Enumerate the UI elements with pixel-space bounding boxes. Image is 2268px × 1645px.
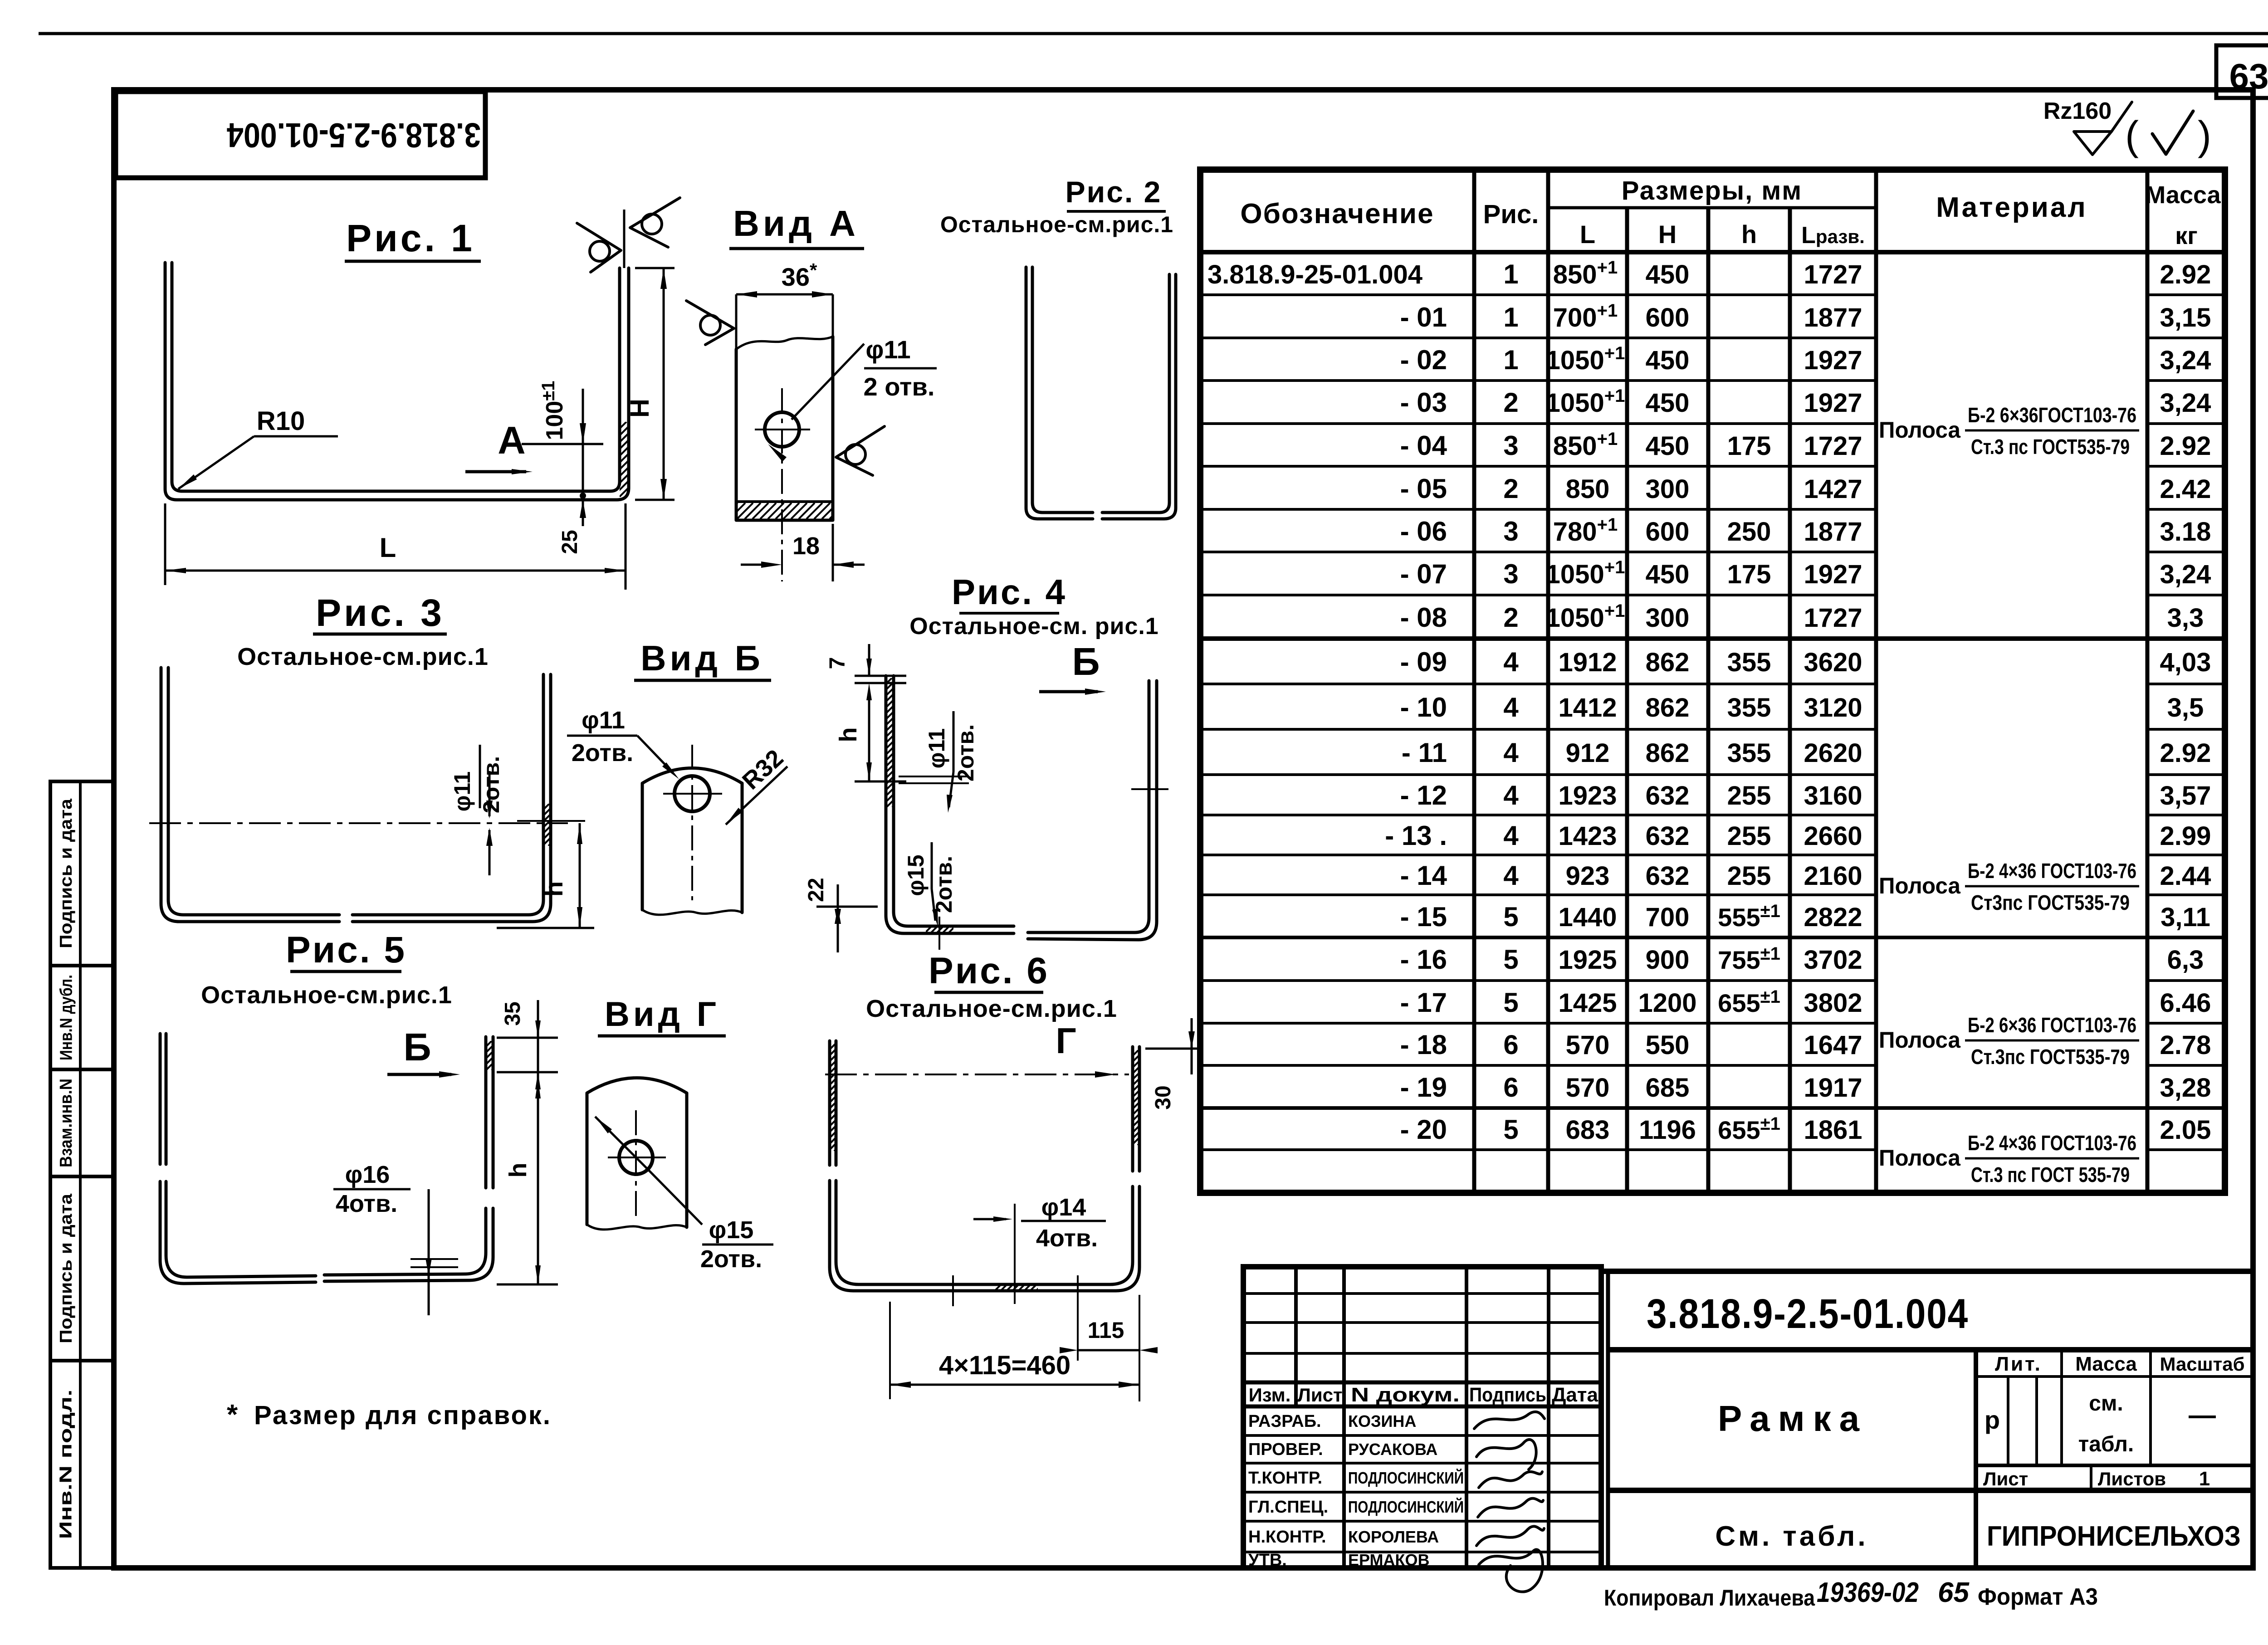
svg-text:1: 1 — [1503, 302, 1518, 332]
svg-text:h: h — [1741, 220, 1757, 249]
svg-text:2.78: 2.78 — [2160, 1030, 2211, 1060]
svg-text:- 14: - 14 — [1400, 860, 1447, 891]
svg-text:1927: 1927 — [1804, 346, 1862, 375]
svg-text:- 12: - 12 — [1400, 780, 1447, 810]
svg-text:H: H — [625, 399, 655, 418]
svg-text:Рис.: Рис. — [1483, 200, 1539, 229]
parts table outer border — [1200, 170, 2225, 1193]
margin section Подпись и дата — [50, 1175, 114, 1178]
svg-text:- 04: - 04 — [1400, 430, 1447, 461]
svg-text:- 18: - 18 — [1400, 1030, 1447, 1060]
svg-text:3.818.9-25-01.004: 3.818.9-25-01.004 — [1207, 260, 1422, 289]
svg-text:Рис. 3: Рис. 3 — [316, 591, 445, 634]
svg-text:2: 2 — [1503, 473, 1518, 504]
svg-text:Lразв.: Lразв. — [1801, 222, 1865, 249]
svg-text:Лист: Лист — [1983, 1468, 2028, 1489]
svg-text:355: 355 — [1727, 648, 1771, 677]
svg-text:Рис. 5: Рис. 5 — [286, 929, 406, 971]
margin section Взам.инв.N — [50, 1068, 114, 1071]
svg-text:5: 5 — [1503, 902, 1518, 932]
svg-text:1647: 1647 — [1804, 1030, 1862, 1060]
svg-text:- 05: - 05 — [1400, 473, 1447, 504]
svg-text:Рис. 2: Рис. 2 — [1066, 175, 1162, 209]
svg-text:1: 1 — [1503, 345, 1518, 375]
title block right part — [1606, 1271, 1610, 1568]
svg-text:Б-2 6×36ГОСТ103-76: Б-2 6×36ГОСТ103-76 — [1968, 403, 2136, 427]
svg-text:- 19: - 19 — [1400, 1072, 1447, 1103]
svg-text:3,24: 3,24 — [2160, 346, 2211, 375]
svg-text:4: 4 — [1503, 737, 1519, 768]
svg-text:1050+1: 1050+1 — [1546, 386, 1625, 418]
svg-text:250: 250 — [1727, 517, 1771, 547]
svg-text:4: 4 — [1503, 780, 1519, 810]
svg-text:ГЛ.СПЕЦ.: ГЛ.СПЕЦ. — [1248, 1498, 1328, 1517]
svg-text:Лит.: Лит. — [1995, 1353, 2042, 1375]
svg-text:Листов: Листов — [2098, 1468, 2166, 1489]
svg-text:Материал: Материал — [1936, 192, 2087, 223]
svg-text:862: 862 — [1646, 693, 1690, 722]
svg-text:632: 632 — [1646, 781, 1690, 810]
title block signature grid — [1243, 1267, 1601, 1568]
svg-text:4отв.: 4отв. — [1036, 1225, 1098, 1252]
svg-text:632: 632 — [1646, 861, 1690, 891]
svg-text:2.44: 2.44 — [2160, 861, 2211, 891]
Рис.4 bottom hole centerline — [938, 917, 940, 950]
svg-text:3,5: 3,5 — [2167, 693, 2204, 722]
svg-text:Рис. 1: Рис. 1 — [346, 217, 475, 259]
svg-text:Остальное-см.рис.1: Остальное-см.рис.1 — [237, 643, 489, 670]
svg-text:850+1: 850+1 — [1553, 258, 1618, 289]
svg-text:1877: 1877 — [1804, 303, 1862, 332]
svg-text:3,28: 3,28 — [2160, 1073, 2211, 1103]
svg-text:Подпись и дата: Подпись и дата — [57, 1193, 76, 1343]
svg-text:h: h — [539, 881, 568, 897]
svg-text:Ст.3пс ГОСТ535-79: Ст.3пс ГОСТ535-79 — [1971, 1045, 2130, 1069]
svg-text:3702: 3702 — [1804, 945, 1862, 975]
svg-text:255: 255 — [1727, 821, 1771, 851]
svg-text:Rz160: Rz160 — [2043, 98, 2112, 124]
svg-text:100±1: 100±1 — [538, 381, 568, 440]
svg-text:1050+1: 1050+1 — [1546, 601, 1625, 633]
svg-text:2.05: 2.05 — [2160, 1115, 2211, 1145]
svg-text:2отв.: 2отв. — [572, 739, 633, 766]
svg-text:850: 850 — [1566, 474, 1610, 504]
Рис.3 hole dim arrows — [489, 771, 491, 816]
svg-text:19369-02: 19369-02 — [1817, 1577, 1919, 1608]
svg-text:6.46: 6.46 — [2160, 988, 2211, 1018]
Вид Г φ15 2отв label — [595, 1117, 648, 1169]
Вид Г bottom wavy break — [587, 1225, 687, 1230]
Рис.3 channel outline — [161, 668, 339, 922]
svg-text:φ14: φ14 — [1041, 1194, 1086, 1221]
Рис.6 channel outline — [828, 1041, 831, 1165]
svg-text:А: А — [498, 419, 525, 462]
Рис.4 hole marks left leg — [899, 776, 969, 777]
svg-text:Вид А: Вид А — [733, 203, 859, 244]
svg-text:Инв.N подл.: Инв.N подл. — [57, 1390, 76, 1539]
svg-text:683: 683 — [1566, 1115, 1610, 1145]
svg-text:Вид Б: Вид Б — [640, 638, 764, 678]
svg-text:Б: Б — [403, 1026, 431, 1069]
Рис.6 hole centerline — [1014, 1204, 1016, 1304]
svg-text:φ11: φ11 — [865, 335, 910, 364]
svg-text:3120: 3120 — [1804, 693, 1862, 722]
svg-text:923: 923 — [1566, 861, 1610, 891]
svg-text:450: 450 — [1646, 260, 1690, 289]
Рис.5 channel outline — [159, 1034, 162, 1164]
svg-text:- 13 .: - 13 . — [1385, 820, 1447, 851]
svg-text:3,57: 3,57 — [2160, 781, 2211, 810]
svg-text:- 09: - 09 — [1400, 647, 1447, 677]
svg-text:3.818.9-2.5-01.004: 3.818.9-2.5-01.004 — [227, 116, 481, 154]
svg-text:1050+1: 1050+1 — [1546, 343, 1625, 375]
Вид А hole leader φ11 2 отв. — [792, 344, 864, 420]
Рис.1 profile outline — [165, 263, 629, 500]
svg-text:850+1: 850+1 — [1553, 429, 1618, 461]
svg-text:Н.КОНТР.: Н.КОНТР. — [1248, 1528, 1326, 1547]
Рис.2 channel outline — [1026, 267, 1093, 519]
svg-text:450: 450 — [1646, 388, 1690, 418]
svg-text:R10: R10 — [257, 406, 305, 436]
table header lines — [1548, 206, 1876, 210]
svg-text:Масса: Масса — [2075, 1353, 2137, 1375]
svg-text:2.92: 2.92 — [2160, 431, 2211, 461]
svg-text:Лист: Лист — [1297, 1384, 1342, 1406]
svg-text:30: 30 — [1151, 1085, 1175, 1109]
svg-text:550: 550 — [1646, 1030, 1690, 1060]
svg-text:Размер для справок.: Размер для справок. — [254, 1401, 552, 1430]
svg-text:Рамка: Рамка — [1718, 1398, 1867, 1439]
Вид Б hole φ11 — [675, 776, 710, 811]
svg-text:Ст3пс ГОСТ535-79: Ст3пс ГОСТ535-79 — [1971, 891, 2130, 914]
svg-text:2.99: 2.99 — [2160, 821, 2211, 851]
Рис.4 channel outline — [886, 676, 1014, 933]
svg-text:780+1: 780+1 — [1553, 515, 1618, 547]
svg-text:РУСАКОВА: РУСАКОВА — [1348, 1440, 1437, 1459]
svg-text:115: 115 — [1088, 1318, 1124, 1343]
svg-text:Размеры, мм: Размеры, мм — [1622, 176, 1802, 205]
svg-text:табл.: табл. — [2078, 1432, 2134, 1456]
svg-text:2.92: 2.92 — [2160, 738, 2211, 768]
svg-text:6,3: 6,3 — [2167, 945, 2204, 975]
svg-text:(: ( — [2125, 113, 2139, 159]
svg-text:КОРОЛЕВА: КОРОЛЕВА — [1348, 1528, 1439, 1546]
svg-text:300: 300 — [1646, 474, 1690, 504]
Рис.1 roughness symbols — [577, 223, 621, 272]
svg-text:- 01: - 01 — [1400, 302, 1447, 332]
svg-text:255: 255 — [1727, 781, 1771, 810]
svg-text:2620: 2620 — [1804, 738, 1862, 768]
svg-text:632: 632 — [1646, 821, 1690, 851]
Вид А bottom flange hatch band — [736, 500, 833, 503]
svg-text:570: 570 — [1566, 1030, 1610, 1060]
svg-text:3.18: 3.18 — [2160, 517, 2211, 547]
svg-text:h: h — [504, 1163, 532, 1178]
svg-text:3: 3 — [1503, 430, 1518, 461]
svg-text:- 02: - 02 — [1400, 345, 1447, 375]
svg-text:Остальное-см. рис.1: Остальное-см. рис.1 — [909, 613, 1158, 639]
svg-text:1050+1: 1050+1 — [1546, 557, 1625, 589]
svg-text:Обозначение: Обозначение — [1240, 198, 1434, 229]
svg-text:φ11: φ11 — [924, 728, 949, 769]
svg-text:φ15: φ15 — [903, 854, 929, 896]
svg-text:18: 18 — [792, 532, 820, 560]
svg-text:Вид Г: Вид Г — [605, 995, 720, 1034]
svg-text:3,11: 3,11 — [2160, 903, 2210, 932]
svg-text:3: 3 — [1503, 559, 1518, 589]
svg-text:65: 65 — [1938, 1577, 1970, 1608]
svg-text:h: h — [835, 727, 862, 742]
Рис.4 right leg centerline tick — [1131, 788, 1168, 790]
svg-text:7: 7 — [826, 657, 850, 669]
svg-text:555±1: 555±1 — [1718, 901, 1780, 932]
Вид Б bottom wavy break — [642, 910, 742, 915]
svg-text:685: 685 — [1646, 1073, 1690, 1103]
svg-text:2отв.: 2отв. — [953, 724, 978, 781]
svg-text:1923: 1923 — [1558, 781, 1617, 810]
svg-text:1727: 1727 — [1804, 431, 1862, 461]
svg-text:2отв.: 2отв. — [931, 856, 957, 913]
svg-text:): ) — [2198, 113, 2211, 159]
svg-text:4: 4 — [1503, 860, 1519, 891]
svg-text:4×115=460: 4×115=460 — [939, 1351, 1070, 1380]
svg-text:Копировал Лихачева: Копировал Лихачева — [1604, 1585, 1815, 1611]
svg-text:Полоса: Полоса — [1879, 1145, 1961, 1171]
svg-text:Рис. 6: Рис. 6 — [929, 950, 1049, 991]
svg-text:1927: 1927 — [1804, 560, 1862, 589]
svg-text:Масса,: Масса, — [2145, 181, 2227, 209]
svg-text:1: 1 — [2199, 1468, 2210, 1490]
svg-text:- 17: - 17 — [1400, 987, 1447, 1018]
svg-text:R32: R32 — [737, 744, 788, 795]
svg-text:355: 355 — [1727, 693, 1771, 722]
svg-text:1412: 1412 — [1558, 693, 1617, 722]
svg-text:570: 570 — [1566, 1073, 1610, 1103]
svg-text:600: 600 — [1646, 303, 1690, 332]
svg-text:1727: 1727 — [1804, 603, 1862, 633]
Рис.5 hole leader — [411, 1189, 429, 1190]
svg-text:3,15: 3,15 — [2160, 303, 2211, 332]
svg-text:3,24: 3,24 — [2160, 560, 2211, 589]
svg-text:1917: 1917 — [1804, 1073, 1862, 1103]
svg-text:Формат А3: Формат А3 — [1978, 1584, 2098, 1610]
svg-text:655±1: 655±1 — [1718, 987, 1780, 1017]
svg-text:УТВ.: УТВ. — [1248, 1551, 1287, 1570]
svg-text:ПОДЛОСИНСКИЙ: ПОДЛОСИНСКИЙ — [1348, 1468, 1464, 1487]
left margin stamp column — [50, 781, 114, 1568]
svg-text:Б-2 6×36 ГОСТ103-76: Б-2 6×36 ГОСТ103-76 — [1968, 1013, 2136, 1037]
svg-text:φ11: φ11 — [450, 771, 475, 812]
svg-text:3802: 3802 — [1804, 988, 1862, 1018]
Рис.6 centerline with Г arrow — [825, 1074, 1129, 1075]
svg-text:450: 450 — [1646, 346, 1690, 375]
svg-text:700: 700 — [1646, 903, 1690, 932]
Вид А roughness symbols — [686, 301, 734, 345]
page number box 63 — [2216, 45, 2268, 98]
svg-text:H: H — [1658, 220, 1677, 249]
svg-text:φ11: φ11 — [582, 707, 625, 734]
svg-text:1912: 1912 — [1558, 648, 1617, 677]
svg-text:2: 2 — [1503, 387, 1518, 418]
svg-text:755±1: 755±1 — [1718, 944, 1780, 974]
svg-text:2160: 2160 — [1804, 861, 1862, 891]
svg-text:Остальное-см.рис.1: Остальное-см.рис.1 — [201, 981, 452, 1009]
svg-text:КОЗИНА: КОЗИНА — [1348, 1412, 1416, 1430]
svg-text:36*: 36* — [782, 259, 817, 291]
svg-text:1877: 1877 — [1804, 517, 1862, 547]
svg-text:Г: Г — [1056, 1020, 1076, 1061]
svg-text:ПРОВЕР.: ПРОВЕР. — [1248, 1440, 1323, 1459]
svg-text:см.: см. — [2089, 1391, 2123, 1416]
svg-text:L: L — [1580, 220, 1595, 249]
svg-text:1727: 1727 — [1804, 260, 1862, 289]
svg-text:4: 4 — [1503, 820, 1519, 851]
margin section Инв.N подл. — [50, 1359, 114, 1362]
svg-text:35: 35 — [501, 1001, 525, 1025]
svg-text:900: 900 — [1646, 945, 1690, 975]
svg-text:862: 862 — [1646, 648, 1690, 677]
svg-text:Ст.3 пс ГОСТ 535-79: Ст.3 пс ГОСТ 535-79 — [1971, 1163, 2130, 1186]
svg-text:- 20: - 20 — [1400, 1114, 1447, 1145]
svg-text:- 03: - 03 — [1400, 387, 1447, 418]
svg-text:862: 862 — [1646, 738, 1690, 768]
svg-text:Инв.N дубл.: Инв.N дубл. — [57, 975, 76, 1060]
svg-text:1861: 1861 — [1804, 1115, 1862, 1145]
svg-text:1425: 1425 — [1558, 988, 1617, 1018]
svg-text:1427: 1427 — [1804, 474, 1862, 504]
Вид Г plate outline — [587, 1078, 687, 1228]
svg-text:450: 450 — [1646, 431, 1690, 461]
svg-text:Подпись: Подпись — [1469, 1384, 1546, 1406]
svg-text:6: 6 — [1503, 1072, 1518, 1103]
svg-text:4,03: 4,03 — [2160, 648, 2211, 677]
svg-text:4: 4 — [1503, 647, 1519, 677]
svg-text:22: 22 — [804, 878, 828, 902]
svg-text:450: 450 — [1646, 560, 1690, 589]
svg-text:ГИПРОНИСЕЛЬХОЗ: ГИПРОНИСЕЛЬХОЗ — [1987, 1521, 2241, 1552]
svg-text:Б-2 4×36 ГОСТ103-76: Б-2 4×36 ГОСТ103-76 — [1968, 859, 2136, 883]
svg-text:1925: 1925 — [1558, 945, 1617, 975]
svg-text:Масштаб: Масштаб — [2160, 1353, 2244, 1375]
table column lines — [1472, 170, 1476, 1193]
svg-text:Ст.3 пс ГОСТ535-79: Ст.3 пс ГОСТ535-79 — [1971, 435, 2130, 459]
svg-text:Т.КОНТР.: Т.КОНТР. — [1248, 1469, 1322, 1488]
svg-text:175: 175 — [1727, 560, 1771, 589]
svg-text:175: 175 — [1727, 431, 1771, 461]
svg-text:- 10: - 10 — [1400, 692, 1447, 722]
svg-text:Б-2 4×36 ГОСТ103-76: Б-2 4×36 ГОСТ103-76 — [1968, 1131, 2136, 1155]
svg-text:1200: 1200 — [1638, 988, 1696, 1018]
svg-text:2822: 2822 — [1804, 903, 1862, 932]
svg-text:5: 5 — [1503, 987, 1518, 1018]
svg-text:кг: кг — [2175, 222, 2198, 249]
svg-text:2отв.: 2отв. — [700, 1245, 762, 1273]
svg-text:600: 600 — [1646, 517, 1690, 547]
svg-text:р: р — [1984, 1406, 2000, 1434]
svg-text:РАЗРАБ.: РАЗРАБ. — [1248, 1412, 1321, 1431]
svg-text:N докум.: N докум. — [1351, 1384, 1460, 1406]
svg-text:3.818.9-2.5-01.004: 3.818.9-2.5-01.004 — [1647, 1291, 1969, 1337]
svg-text:655±1: 655±1 — [1718, 1114, 1780, 1144]
svg-text:6: 6 — [1503, 1030, 1518, 1060]
margin section Инв.N дубл. — [50, 964, 114, 967]
svg-text:ЕРМАКОВ: ЕРМАКОВ — [1348, 1551, 1430, 1569]
svg-text:—: — — [2189, 1400, 2216, 1430]
svg-text:Остальное-см.рис.1: Остальное-см.рис.1 — [940, 212, 1173, 237]
svg-text:255: 255 — [1727, 861, 1771, 891]
signatures squiggles — [1474, 1412, 1545, 1429]
Вид Б plate outline — [642, 768, 742, 913]
top-left inverted stamp box — [116, 92, 485, 178]
svg-text:См. табл.: См. табл. — [1715, 1521, 1868, 1552]
Вид А hole φ11 — [765, 412, 799, 447]
lit/massa/masshtab grid — [1976, 1375, 2253, 1378]
svg-text:300: 300 — [1646, 603, 1690, 633]
svg-text:Полоса: Полоса — [1879, 417, 1961, 443]
svg-text:355: 355 — [1727, 738, 1771, 768]
Вид Г hole φ15 — [619, 1141, 653, 1174]
svg-text:- 11: - 11 — [1402, 737, 1447, 768]
svg-text:1440: 1440 — [1558, 903, 1617, 932]
Рис.6 pitch ticks — [952, 1275, 954, 1306]
svg-text:4: 4 — [1503, 692, 1519, 722]
svg-text:Дата: Дата — [1552, 1384, 1598, 1406]
svg-text:4отв.: 4отв. — [336, 1190, 397, 1217]
svg-text:- 15: - 15 — [1400, 902, 1447, 932]
Рис.3 centerline — [149, 822, 568, 824]
svg-text:3620: 3620 — [1804, 648, 1862, 677]
svg-text:2 отв.: 2 отв. — [864, 372, 935, 401]
svg-text:- 16: - 16 — [1400, 944, 1447, 975]
svg-text:Остальное-см.рис.1: Остальное-см.рис.1 — [866, 995, 1117, 1022]
svg-text:Взам.инв.N: Взам.инв.N — [57, 1079, 76, 1167]
svg-text:*: * — [227, 1399, 238, 1430]
margin section Подпись и дата — [50, 780, 114, 783]
svg-text:- 06: - 06 — [1400, 516, 1447, 547]
svg-text:- 07: - 07 — [1400, 559, 1447, 589]
svg-text:2: 2 — [1503, 602, 1518, 633]
svg-text:1927: 1927 — [1804, 388, 1862, 418]
svg-text:L: L — [380, 532, 396, 563]
svg-text:2.92: 2.92 — [2160, 260, 2211, 289]
svg-text:5: 5 — [1503, 944, 1518, 975]
svg-text:912: 912 — [1566, 738, 1610, 768]
svg-text:3: 3 — [1503, 516, 1518, 547]
svg-text:Полоса: Полоса — [1879, 1027, 1961, 1053]
top sheet edge line — [39, 32, 2216, 35]
Вид А wavy break top — [736, 337, 833, 349]
table row lines — [1200, 293, 1876, 296]
svg-text:2660: 2660 — [1804, 821, 1862, 851]
svg-text:3,3: 3,3 — [2167, 603, 2204, 633]
svg-text:φ16: φ16 — [345, 1161, 390, 1188]
svg-text:Рис. 4: Рис. 4 — [952, 572, 1067, 612]
svg-text:Подпись и дата: Подпись и дата — [57, 798, 76, 948]
svg-text:3160: 3160 — [1804, 781, 1862, 810]
svg-text:1196: 1196 — [1639, 1115, 1696, 1145]
svg-text:2.42: 2.42 — [2160, 474, 2211, 504]
svg-text:700+1: 700+1 — [1553, 301, 1618, 332]
svg-text:- 08: - 08 — [1400, 602, 1447, 633]
svg-text:ПОДЛОСИНСКИЙ: ПОДЛОСИНСКИЙ — [1348, 1497, 1464, 1516]
svg-text:Изм.: Изм. — [1249, 1384, 1291, 1406]
svg-text:3,24: 3,24 — [2160, 388, 2211, 418]
svg-text:φ15: φ15 — [709, 1216, 754, 1244]
svg-text:5: 5 — [1503, 1114, 1518, 1145]
svg-text:25: 25 — [558, 530, 582, 554]
Рис.1 H extension line up — [623, 210, 626, 268]
Вид А strip outline — [736, 337, 833, 520]
